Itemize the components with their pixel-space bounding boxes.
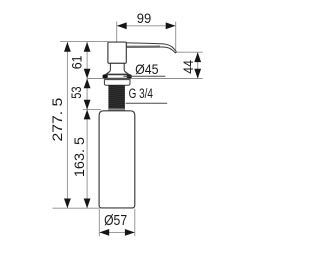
flange plate (Ø45) (103, 75, 132, 79)
dimension line 44 (197, 52, 199, 78)
svg-text:163. 5: 163. 5 (71, 137, 87, 177)
extension line mid (53/163.5 boundary) (83, 109, 101, 111)
leader line Ø45 (123, 75, 165, 77)
locknut (104, 80, 130, 86)
bottle (container) (99, 111, 135, 208)
pump head (108, 42, 126, 63)
svg-text:Ø45: Ø45 (135, 61, 159, 77)
svg-text:53: 53 (68, 86, 84, 98)
thread bottom collar (109, 108, 125, 110)
extension line bottle left (98, 209, 100, 237)
arrow down 44 (194, 69, 201, 79)
arrow up 44 (194, 52, 201, 62)
arrow left 57 (99, 229, 109, 236)
arrow down 163.5 (84, 199, 91, 209)
o-ring seal right (127, 75, 132, 78)
leader line G 3/4 (126, 102, 168, 104)
extension line head centerline (116, 22, 118, 42)
dimension line 99 (117, 25, 176, 27)
extension line spout tip vertical (175, 22, 177, 52)
pump neck with trumpet flare (106, 63, 129, 74)
dimension line 61/53/163.5 (86, 42, 88, 208)
svg-text:99: 99 (137, 10, 152, 26)
dimension line 277.5 (66, 42, 68, 208)
svg-text:277. 5: 277. 5 (49, 97, 65, 141)
thread hatch lines (108, 86, 125, 107)
spout tube inner seam line (127, 45, 161, 47)
extension line bottom of bottle (53, 207, 100, 209)
arrow right of 99 dim (166, 22, 176, 29)
deck line (counter surface) (87, 78, 203, 80)
dimension 44 extension top (spout tip level) (177, 51, 203, 53)
svg-text:Ø57: Ø57 (104, 213, 127, 229)
arrow right 57 (125, 229, 135, 236)
arrow up 163.5 (84, 110, 91, 120)
extension line top of head (60, 40, 108, 42)
threaded shank G 3/4 (108, 85, 125, 110)
extension line bottle right (134, 209, 136, 237)
svg-text:G 3/4: G 3/4 (129, 86, 154, 101)
arrow down 277.5 (64, 199, 71, 209)
svg-text:44: 44 (180, 60, 196, 74)
arrow down 53 (84, 100, 91, 110)
arrow down 61 at deck (84, 69, 91, 79)
arrow up 53 below deck (84, 79, 91, 89)
dimension line 57 (99, 231, 135, 233)
spout tube (126, 43, 176, 53)
svg-text:61: 61 (69, 55, 85, 69)
o-ring seal left (103, 75, 108, 78)
arrow up 277.5 (64, 42, 71, 52)
arrow left of 99 dim (117, 22, 127, 29)
arrow up 61 (84, 42, 91, 52)
